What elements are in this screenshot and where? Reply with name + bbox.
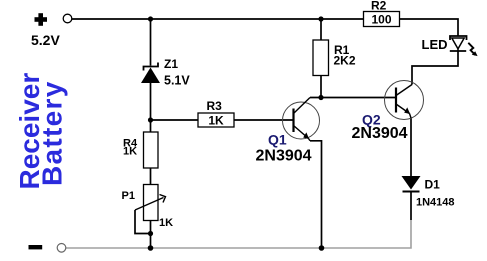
svg-text:2K2: 2K2 <box>334 54 356 68</box>
svg-text:1K: 1K <box>159 217 173 229</box>
svg-text:R3: R3 <box>207 99 223 113</box>
svg-text:Z1: Z1 <box>164 57 178 71</box>
svg-text:100: 100 <box>371 13 391 27</box>
svg-text:1K: 1K <box>208 114 224 128</box>
svg-text:2N3904: 2N3904 <box>352 125 408 142</box>
svg-text:D1: D1 <box>425 178 441 192</box>
svg-text:LED: LED <box>422 37 448 52</box>
svg-text:2N3904: 2N3904 <box>256 148 312 165</box>
svg-text:Q1: Q1 <box>268 132 287 148</box>
svg-text:Battery: Battery <box>37 80 68 186</box>
svg-text:1N4148: 1N4148 <box>416 197 455 209</box>
svg-text:5.1V: 5.1V <box>164 74 190 88</box>
svg-text:5.2V: 5.2V <box>31 32 60 48</box>
svg-text:1K: 1K <box>123 145 137 157</box>
svg-text:R2: R2 <box>371 0 387 13</box>
svg-text:P1: P1 <box>122 190 135 202</box>
